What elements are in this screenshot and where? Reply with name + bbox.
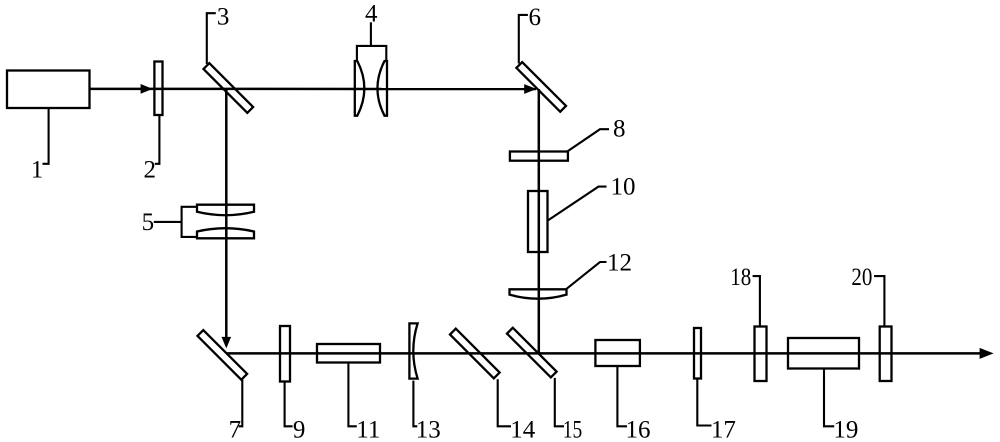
leader label 5 xyxy=(154,221,182,223)
arrowhead into element 2 xyxy=(141,84,153,94)
svg-text:15: 15 xyxy=(563,416,583,442)
element 11 (crystal) xyxy=(317,344,380,363)
element 16 (crystal) xyxy=(595,340,640,366)
leader label 20 xyxy=(874,276,884,326)
wire: left vertical beam xyxy=(225,89,228,337)
lens 5 upper element xyxy=(197,205,254,216)
leader label 14 xyxy=(498,379,511,426)
svg-text:12: 12 xyxy=(607,250,632,277)
svg-text:6: 6 xyxy=(529,4,542,31)
lens 4 left element xyxy=(355,61,365,116)
leader label 12 xyxy=(566,262,606,289)
svg-text:5: 5 xyxy=(142,209,155,236)
leader label 15 xyxy=(555,378,564,426)
leader label 17 xyxy=(697,379,711,426)
mirror 6 xyxy=(516,62,566,112)
element 2 (shutter/attenuator plate) xyxy=(154,62,162,116)
svg-text:10: 10 xyxy=(611,174,636,201)
arrowhead into mirror 7 xyxy=(222,337,232,349)
laser source 1 xyxy=(7,71,90,109)
svg-text:19: 19 xyxy=(833,417,858,442)
leader label 10 xyxy=(547,187,606,221)
leader label 3 xyxy=(207,13,216,64)
leader label 6 xyxy=(519,15,528,64)
leader label 9 xyxy=(285,381,293,426)
element 10 (crystal) xyxy=(528,191,548,252)
lens 13 (plano-concave) xyxy=(409,323,417,378)
leader label 16 xyxy=(617,366,627,426)
element 9 (plate) xyxy=(280,326,290,382)
leader label 7 xyxy=(239,380,243,427)
svg-text:7: 7 xyxy=(229,416,242,442)
leader label 8 xyxy=(568,129,609,151)
mirror 7 xyxy=(197,330,247,380)
svg-text:18: 18 xyxy=(730,264,751,291)
svg-text:9: 9 xyxy=(293,416,306,442)
leader label 2 xyxy=(155,115,160,164)
svg-text:3: 3 xyxy=(217,3,230,30)
leader label 11 xyxy=(348,362,356,426)
arrowhead into mirror 6 xyxy=(524,84,536,94)
leader label 4 bracket xyxy=(357,46,386,61)
svg-text:14: 14 xyxy=(510,416,536,442)
lens 4 right element xyxy=(377,61,387,116)
lens 5 lower element xyxy=(197,228,254,238)
svg-text:4: 4 xyxy=(365,1,378,28)
svg-text:8: 8 xyxy=(613,116,626,143)
output arrowhead xyxy=(980,348,994,359)
leader label 18 xyxy=(753,276,760,326)
leader label 1 xyxy=(43,108,49,164)
leader label 19 xyxy=(824,369,834,427)
leader label 4 stem xyxy=(370,22,372,46)
svg-text:11: 11 xyxy=(356,416,380,442)
mirror 3 (beam splitter) xyxy=(203,63,253,113)
leader label 5 bracket xyxy=(182,207,197,237)
mirror 15 (beam combiner) xyxy=(507,328,557,378)
element 19 (crystal) xyxy=(788,338,859,369)
lens 12 xyxy=(510,289,567,298)
svg-text:13: 13 xyxy=(416,416,441,442)
mirror 14 xyxy=(450,329,500,379)
wire: bottom horizontal beam xyxy=(226,352,980,355)
element 8 (waveplate) xyxy=(510,152,568,161)
svg-text:20: 20 xyxy=(851,264,872,291)
svg-text:2: 2 xyxy=(144,156,157,183)
svg-text:17: 17 xyxy=(711,416,736,442)
svg-text:16: 16 xyxy=(626,416,651,442)
svg-text:1: 1 xyxy=(31,156,44,183)
wire: right vertical beam xyxy=(538,89,541,353)
element 18 (plate) xyxy=(755,327,767,382)
wire: top horizontal beam xyxy=(90,88,537,91)
leader label 13 xyxy=(413,381,417,427)
element 17 (thin plate) xyxy=(694,328,701,379)
element 20 (plate) xyxy=(880,327,892,382)
